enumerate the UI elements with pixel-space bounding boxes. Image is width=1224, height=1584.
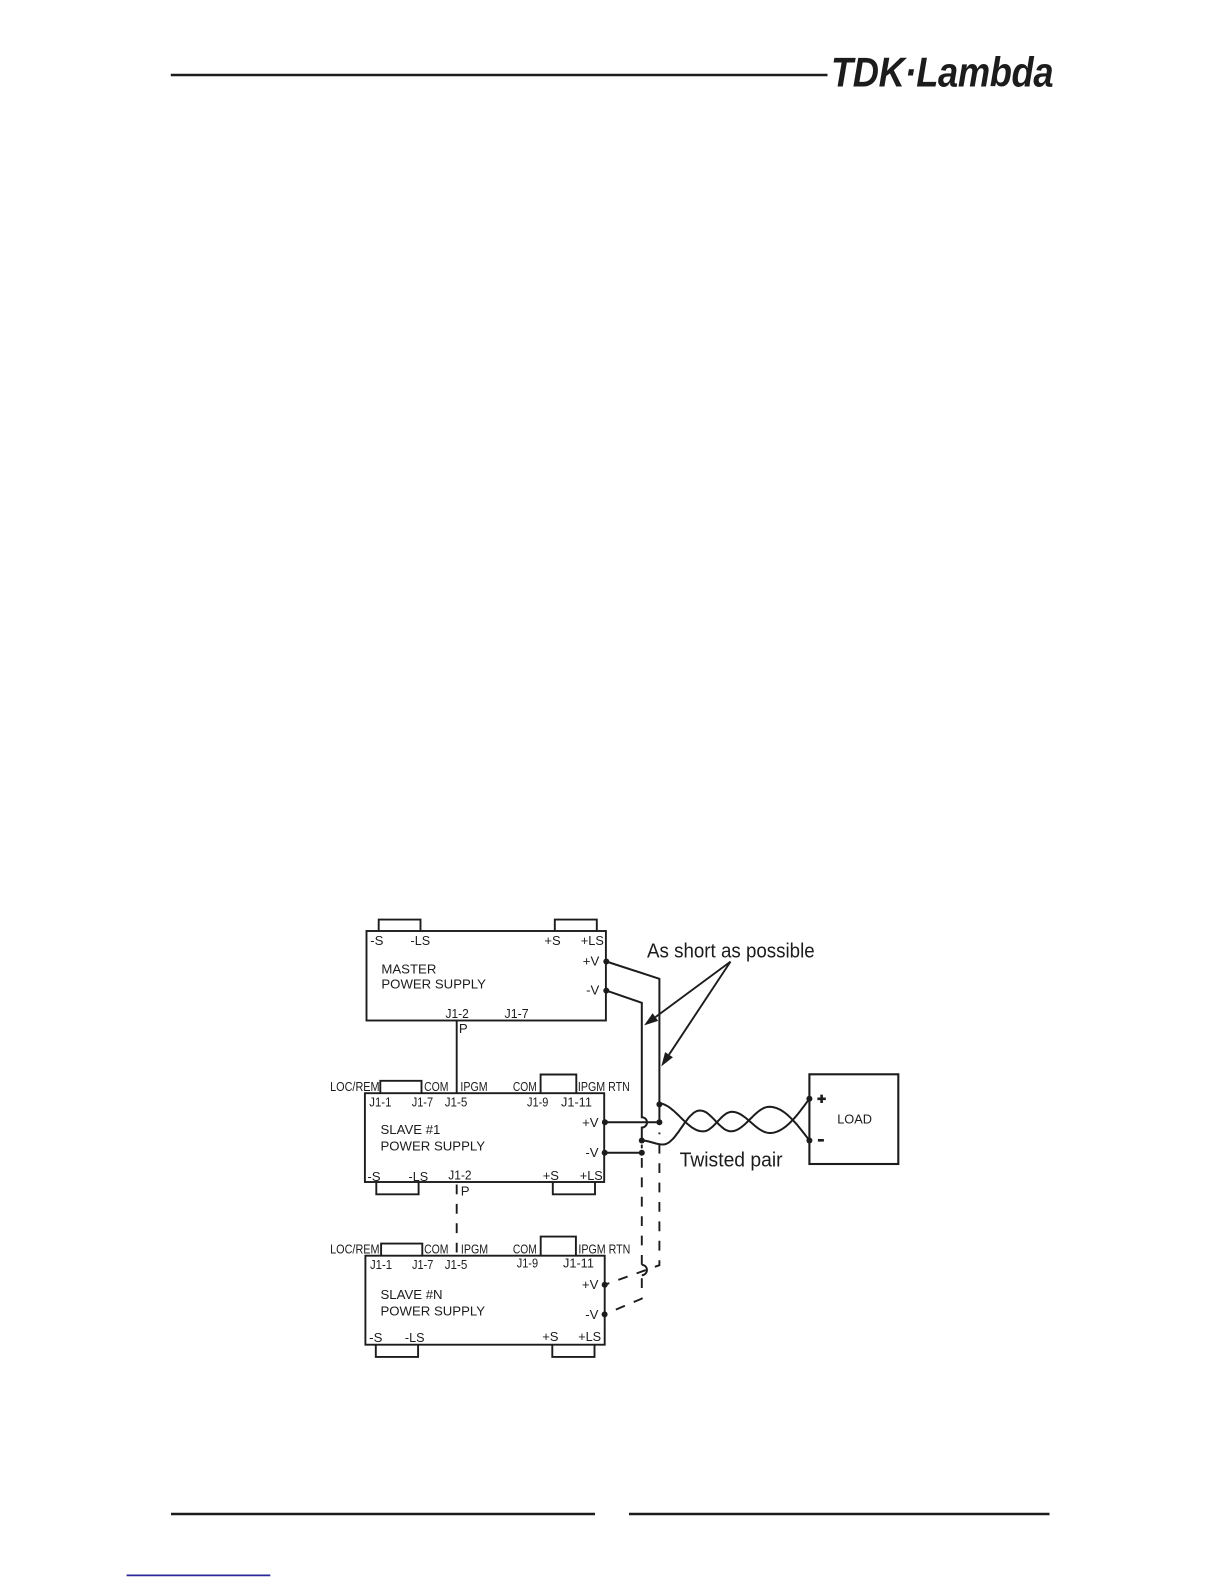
- slaveN pin label -S: [369, 1330, 382, 1345]
- load - terminal dot: [806, 1138, 812, 1144]
- master top-left mounting tab: [379, 920, 421, 931]
- slave1 pin label -S: [367, 1169, 380, 1184]
- svg-text:+V: +V: [582, 1277, 599, 1292]
- slaveN terminal label -V: [585, 1307, 598, 1322]
- svg-text:-V: -V: [585, 1307, 598, 1322]
- svg-text:MASTER: MASTER: [381, 961, 436, 976]
- slaveN top-right COM tab: [541, 1237, 576, 1256]
- svg-text:J1-5: J1-5: [445, 1095, 468, 1110]
- svg-text:COM: COM: [513, 1079, 537, 1094]
- node label P under slave1: [461, 1183, 470, 1198]
- svg-text:TDK·Lambda: TDK·Lambda: [831, 50, 1053, 96]
- slave1 bottom-left tab: [376, 1182, 418, 1194]
- svg-text:J1-1: J1-1: [369, 1095, 391, 1110]
- slaveN -V junction dot: [602, 1311, 608, 1317]
- slave1 pin label -LS: [409, 1169, 429, 1184]
- svg-text:POWER SUPPLY: POWER SUPPLY: [381, 1304, 486, 1319]
- svg-text:Twisted pair: Twisted pair: [680, 1150, 783, 1172]
- slave1 label COM 2: [513, 1079, 537, 1094]
- svg-text:POWER SUPPLY: POWER SUPPLY: [381, 976, 486, 991]
- slave #N power supply box U3: [365, 1256, 604, 1345]
- slave1 top-left tab: [380, 1081, 421, 1093]
- slave1 pin label J1-7: [412, 1095, 433, 1110]
- svg-text:SLAVE #N: SLAVE #N: [381, 1287, 443, 1302]
- slave1 label IPGM RTN: [578, 1079, 630, 1094]
- slaveN label IPGM: [461, 1241, 488, 1256]
- master -V terminal junction dot: [603, 988, 609, 994]
- svg-text:IPGM RTN: IPGM RTN: [578, 1241, 630, 1256]
- master terminal label -V: [586, 982, 599, 997]
- load + terminal mark: [817, 1095, 825, 1103]
- svg-text:COM: COM: [513, 1241, 537, 1256]
- master +V terminal junction dot: [603, 959, 609, 965]
- svg-text:P: P: [459, 1021, 468, 1036]
- slave1 pin label +LS: [580, 1168, 603, 1183]
- svg-text:J1-11: J1-11: [563, 1255, 594, 1270]
- svg-text:-LS: -LS: [411, 933, 431, 948]
- wire slave1 -V to node: [605, 1152, 642, 1154]
- svg-text:SLAVE #1: SLAVE #1: [381, 1122, 441, 1137]
- svg-text:-V: -V: [585, 1145, 598, 1160]
- slaveN pin label J1-1: [370, 1257, 392, 1272]
- svg-text:IPGM: IPGM: [461, 1241, 488, 1256]
- slave1 label IPGM: [460, 1079, 487, 1094]
- slaveN label IPGM RTN: [578, 1241, 630, 1256]
- slave1 top-right COM tab: [541, 1075, 577, 1094]
- svg-text:J1-9: J1-9: [527, 1095, 548, 1110]
- footer rule line left: [171, 1513, 595, 1516]
- slaveN label LOC/REM: [330, 1241, 380, 1256]
- load - terminal mark: [818, 1139, 824, 1142]
- svg-text:J1-1: J1-1: [370, 1257, 392, 1272]
- svg-text:J1-7: J1-7: [412, 1095, 433, 1110]
- wire from master -V down with hop over slave +V wire: [606, 991, 647, 1141]
- svg-text:+LS: +LS: [578, 1329, 601, 1344]
- svg-text:J1-7: J1-7: [412, 1257, 433, 1272]
- slaveN pin label +LS: [578, 1329, 601, 1344]
- junction dot twisted pair - upper: [639, 1138, 645, 1144]
- slaveN pin label +S: [542, 1329, 558, 1344]
- master title text: [381, 961, 486, 991]
- slaveN bottom-right tab: [552, 1345, 594, 1357]
- node label P under master: [459, 1021, 468, 1036]
- slave1 pin label J1-5: [445, 1095, 468, 1110]
- svg-text:+V: +V: [583, 953, 600, 968]
- svg-text:+LS: +LS: [580, 1168, 603, 1183]
- slaveN pin label J1-11: [563, 1255, 594, 1270]
- svg-text:P: P: [461, 1183, 470, 1198]
- svg-text:IPGM: IPGM: [460, 1079, 487, 1094]
- wire master J1-2 to slave1 IPGM: [456, 1021, 458, 1094]
- svg-text:J1-2: J1-2: [448, 1167, 471, 1182]
- master top-right mounting tab: [555, 920, 597, 931]
- wire from master +V down to twisted pair node: [606, 962, 659, 1123]
- load box: [809, 1074, 898, 1164]
- load text label: [837, 1111, 872, 1126]
- slave #1 power supply box U2: [365, 1093, 604, 1182]
- slave1 terminal label +V: [582, 1115, 599, 1130]
- svg-text:+S: +S: [543, 1168, 559, 1183]
- svg-text:+V: +V: [582, 1115, 599, 1130]
- svg-text:J1-7: J1-7: [505, 1006, 529, 1021]
- svg-text:-S: -S: [369, 1330, 382, 1345]
- svg-text:-S: -S: [370, 933, 383, 948]
- annotation arrow to -V wire: [644, 962, 730, 1026]
- slave1 pin label J1-9: [527, 1095, 548, 1110]
- annotation text: Twisted pair: [680, 1150, 783, 1172]
- slave1 pin label J1-1: [369, 1095, 391, 1110]
- twisted pair wire + (top conductor): [659, 1099, 809, 1133]
- slaveN label COM 2: [513, 1241, 537, 1256]
- slaveN pin label J1-9: [517, 1255, 538, 1270]
- slave1 title text: [381, 1122, 486, 1154]
- svg-text:-V: -V: [586, 982, 599, 997]
- dashed wire slave1 P to slaveN IPGM: [456, 1183, 458, 1256]
- svg-text:J1-2: J1-2: [446, 1006, 469, 1021]
- master terminal label +V: [583, 953, 600, 968]
- master pin label +S: [544, 933, 560, 948]
- master pin label +LS: [581, 933, 604, 948]
- TDK-Lambda logo: [831, 50, 1053, 96]
- master pin label -LS: [411, 933, 431, 948]
- svg-text:LOAD: LOAD: [837, 1111, 872, 1126]
- slave1 -V junction dot: [602, 1150, 608, 1156]
- svg-text:LOC/REM: LOC/REM: [330, 1241, 380, 1256]
- slave1 pin label +S: [543, 1168, 559, 1183]
- svg-text:J1-5: J1-5: [445, 1257, 468, 1272]
- slave1 pin label J1-2: [448, 1167, 471, 1182]
- slave1 bottom-right tab: [553, 1182, 595, 1194]
- annotation text: As short as possible: [647, 941, 815, 963]
- master pin label J1-7: [505, 1006, 529, 1021]
- slave1 label COM: [424, 1079, 448, 1094]
- slave1 label LOC/REM: [330, 1079, 380, 1094]
- twisted pair wire - (bottom conductor): [642, 1107, 810, 1145]
- junction dot twisted pair + top: [656, 1101, 662, 1107]
- junction dot twisted pair - lower: [639, 1150, 645, 1156]
- dashed wire - bus down to slaveN with hop: [605, 1145, 647, 1315]
- svg-text:As short as possible: As short as possible: [647, 941, 815, 963]
- slaveN label COM: [424, 1241, 448, 1256]
- master pin label -S: [370, 933, 383, 948]
- junction dot twisted pair + mid: [656, 1119, 662, 1125]
- dashed wire + bus down to slaveN: [605, 1133, 660, 1285]
- header rule line: [171, 74, 828, 77]
- svg-text:+S: +S: [542, 1329, 558, 1344]
- slaveN top-left tab: [381, 1244, 422, 1256]
- footer blue hyperlink rule: [127, 1574, 271, 1576]
- slaveN pin label J1-7: [412, 1257, 433, 1272]
- slaveN pin label -LS: [405, 1330, 425, 1345]
- svg-text:IPGM RTN: IPGM RTN: [578, 1079, 630, 1094]
- svg-text:-LS: -LS: [409, 1169, 429, 1184]
- slaveN title text: [381, 1287, 486, 1319]
- wire slave1 +V to twisted pair node: [605, 1121, 660, 1123]
- svg-text:+LS: +LS: [581, 933, 604, 948]
- svg-text:+S: +S: [544, 933, 560, 948]
- slave1 +V junction dot: [602, 1119, 608, 1125]
- load + terminal dot: [806, 1096, 812, 1102]
- slaveN bottom-left tab: [376, 1345, 418, 1357]
- svg-text:COM: COM: [424, 1241, 448, 1256]
- master power supply box U1: [367, 931, 606, 1021]
- svg-text:POWER SUPPLY: POWER SUPPLY: [381, 1139, 486, 1154]
- slaveN terminal label +V: [582, 1277, 599, 1292]
- svg-text:-S: -S: [367, 1169, 380, 1184]
- master pin label J1-2: [446, 1006, 469, 1021]
- slave1 pin label J1-11: [561, 1095, 592, 1110]
- svg-text:J1-9: J1-9: [517, 1255, 538, 1270]
- slave1 terminal label -V: [585, 1145, 598, 1160]
- svg-text:LOC/REM: LOC/REM: [330, 1079, 380, 1094]
- annotation arrow to +V wire: [661, 962, 730, 1067]
- slaveN +V junction dot: [602, 1282, 608, 1288]
- footer rule line right: [629, 1513, 1050, 1516]
- svg-text:-LS: -LS: [405, 1330, 425, 1345]
- svg-text:COM: COM: [424, 1079, 448, 1094]
- svg-text:J1-11: J1-11: [561, 1095, 592, 1110]
- slaveN pin label J1-5: [445, 1257, 468, 1272]
